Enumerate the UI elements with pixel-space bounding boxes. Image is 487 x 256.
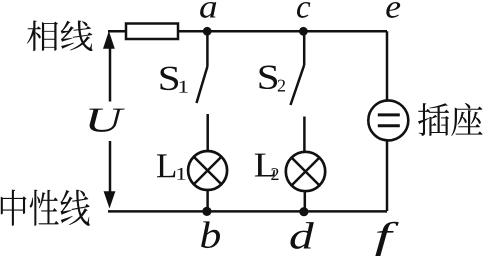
label L2 [255, 154, 275, 177]
voltage arrow down (to neutral line) [104, 141, 116, 209]
lamp L2 [286, 152, 325, 191]
label d [290, 222, 313, 249]
node d [299, 207, 308, 216]
bottom wire (neutral) [108, 210, 387, 213]
node b [202, 207, 211, 216]
label c [297, 2, 310, 18]
wire lamp L1 to node b [206, 190, 209, 211]
label a [200, 2, 216, 18]
voltage arrow up (to live line) [103, 31, 115, 102]
socket symbol [368, 100, 408, 140]
switch S2 [291, 31, 305, 152]
live line label 相线 [27, 20, 93, 51]
wire socket to node f [386, 141, 389, 212]
lamp L1 [188, 151, 227, 190]
node a [203, 27, 212, 36]
neutral line label 中性线 [1, 190, 90, 226]
label L1 [157, 154, 175, 177]
fuse [126, 24, 178, 40]
label S2 [259, 66, 277, 90]
label e [386, 2, 400, 18]
top wire (live) [108, 30, 387, 33]
label U [89, 109, 124, 132]
wire lamp L2 to node d [304, 191, 307, 211]
socket label 插座 [418, 103, 483, 136]
switch S1 [197, 31, 208, 151]
right branch wire from e down to socket [386, 31, 389, 100]
label b [201, 221, 220, 248]
label f [375, 222, 399, 256]
label S1 [160, 67, 178, 91]
node c [299, 27, 308, 36]
